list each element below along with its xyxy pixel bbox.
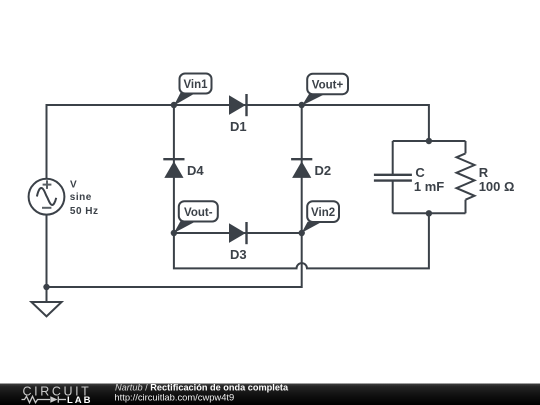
svg-text:V: V <box>70 180 77 191</box>
svg-text:D2: D2 <box>315 163 332 178</box>
svg-text:D3: D3 <box>230 247 247 262</box>
svg-text:1 mF: 1 mF <box>414 179 444 194</box>
svg-text:R: R <box>479 165 489 180</box>
svg-text:100 Ω: 100 Ω <box>479 179 515 194</box>
svg-text:D1: D1 <box>230 119 247 134</box>
svg-text:LAB: LAB <box>67 395 93 405</box>
svg-text:Vout+: Vout+ <box>312 80 344 92</box>
svg-text:C: C <box>415 165 425 180</box>
svg-text:Vin2: Vin2 <box>311 207 335 219</box>
svg-text:D4: D4 <box>187 163 204 178</box>
svg-text:sine: sine <box>70 192 92 203</box>
svg-text:Vin1: Vin1 <box>183 79 208 91</box>
svg-text:50 Hz: 50 Hz <box>70 206 99 217</box>
svg-text:Vout-: Vout- <box>184 207 213 219</box>
svg-text:http://circuitlab.com/cwpw4t9: http://circuitlab.com/cwpw4t9 <box>114 391 234 402</box>
